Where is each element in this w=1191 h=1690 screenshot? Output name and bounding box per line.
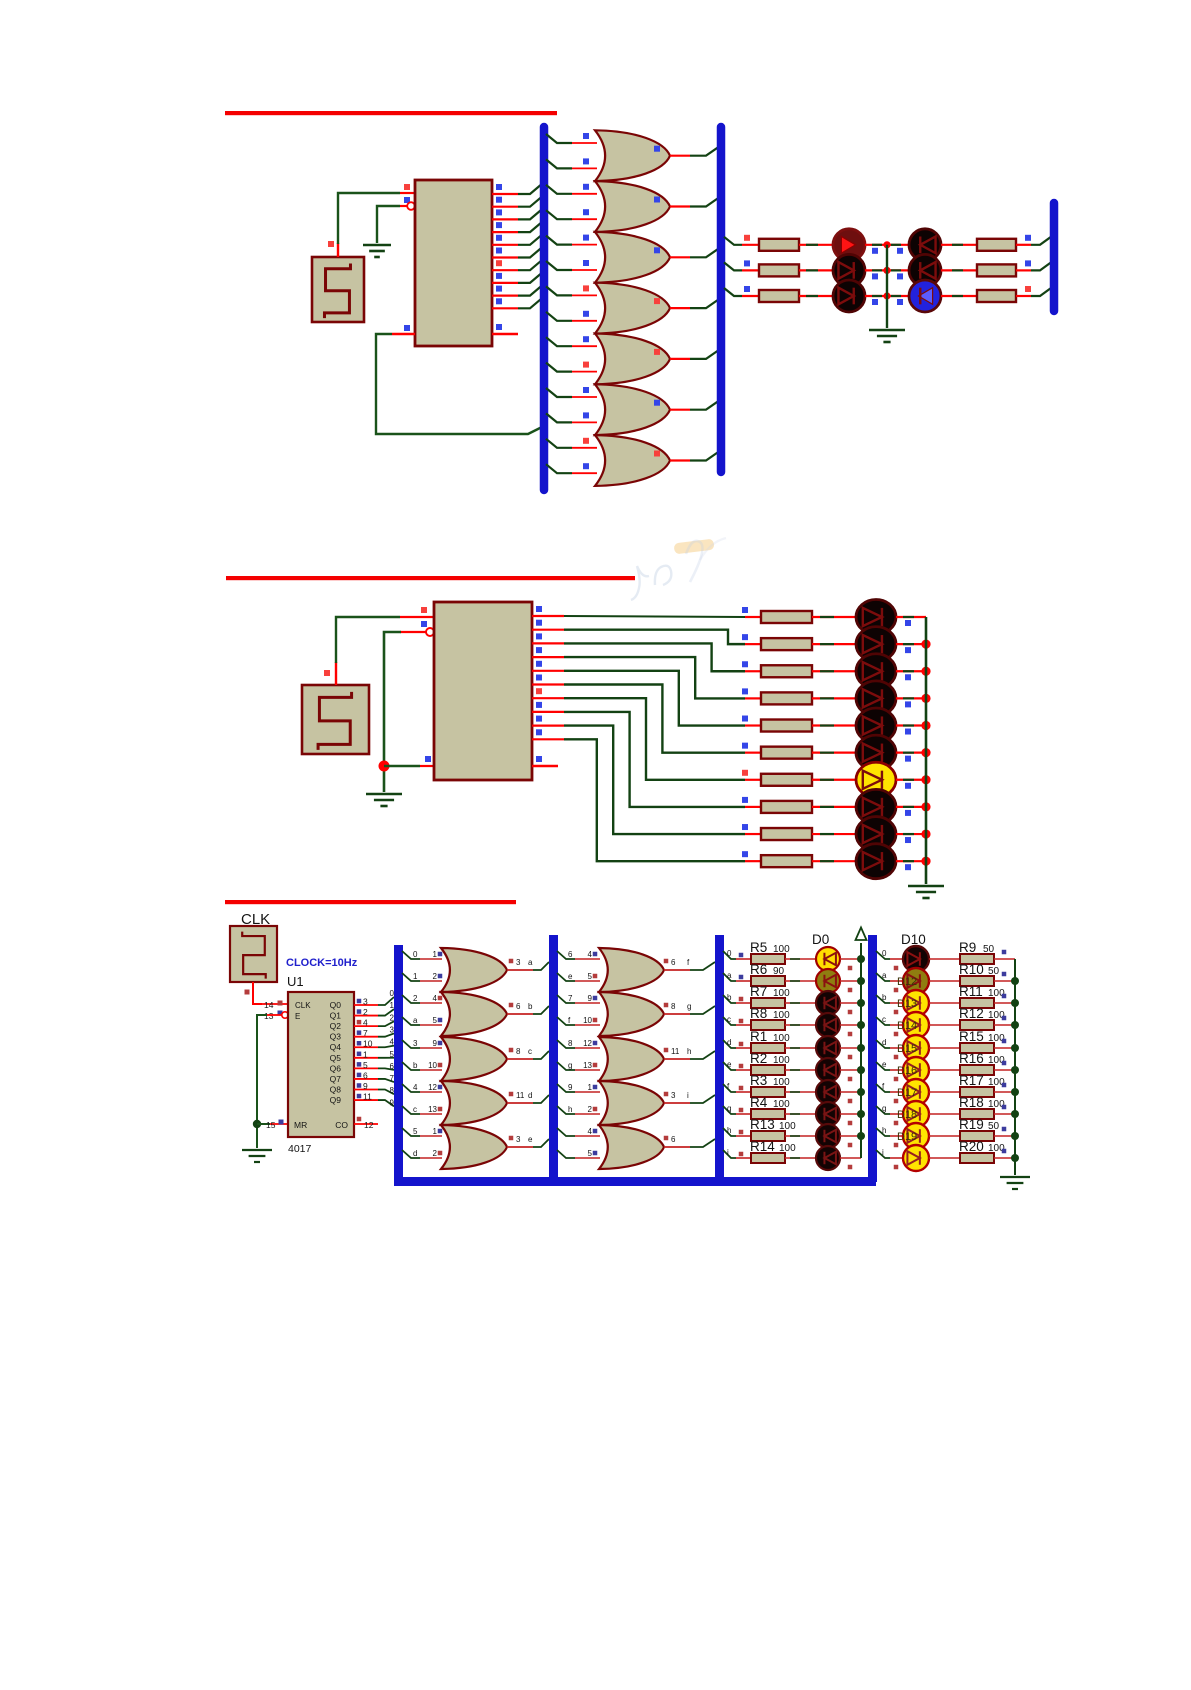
wire pin 9 to left bus bbox=[518, 285, 543, 296]
svg-text:5: 5 bbox=[588, 1149, 593, 1158]
svg-text:5: 5 bbox=[363, 1060, 368, 1070]
wire resistor to LED row 2 bbox=[799, 269, 834, 271]
resistor R3 fig3 bbox=[751, 1087, 785, 1097]
net marker after LED row 2 fig2 bbox=[905, 647, 911, 653]
wire bus to OR gate c input 2 fig3 col1 bbox=[402, 1062, 420, 1070]
LED D9 fig3 (off) bbox=[816, 1146, 840, 1170]
svg-text:R5: R5 bbox=[750, 940, 767, 955]
net marker D10 row c bbox=[894, 1032, 899, 1037]
svg-text:4: 4 bbox=[413, 1083, 418, 1092]
svg-text:i: i bbox=[727, 1148, 729, 1157]
svg-text:Q9: Q9 bbox=[330, 1095, 342, 1105]
wire LED D19 to resistor R20 bbox=[929, 1157, 960, 1159]
pin 2 of U1 fig1 right side bbox=[492, 206, 518, 208]
pin 4 of U1 fig2 bbox=[532, 656, 564, 658]
svg-text:3: 3 bbox=[363, 997, 368, 1007]
junction dot ground rail row 2 fig3 bbox=[1011, 999, 1019, 1007]
svg-text:100: 100 bbox=[773, 1077, 790, 1088]
LED D12 fig3 (lit) bbox=[903, 990, 929, 1016]
junction dot row 3 fig2 bbox=[921, 667, 930, 676]
svg-text:100: 100 bbox=[773, 988, 790, 999]
wire bus to OR gate e input 1 fig3 col1 bbox=[402, 1128, 420, 1136]
bus fig3 LED section D10 bbox=[868, 935, 877, 1182]
resistor R2 fig3 bbox=[751, 1065, 785, 1075]
wire LED D10 to resistor R9 bbox=[929, 958, 960, 960]
net marker gate col2 g2 output bbox=[664, 1003, 669, 1008]
wire bus2 to OR gate col2 g2 input 1 bbox=[557, 995, 575, 1003]
wire LED D1 to anode rail bbox=[840, 980, 861, 982]
wire bus to OR gate e input 2 fig3 col1 bbox=[402, 1150, 420, 1158]
resistor R10 fig2 bbox=[761, 855, 812, 867]
svg-text:50: 50 bbox=[988, 966, 1000, 977]
OR gate U3 fig1 bbox=[595, 181, 670, 232]
resistor R7 fig3 bbox=[751, 998, 785, 1008]
svg-text:12: 12 bbox=[583, 1039, 592, 1048]
resistor R10 fig3 bbox=[960, 976, 994, 986]
junction dot ground rail row 4 fig3 bbox=[1011, 1044, 1019, 1052]
junction dot ground rail row 1 fig3 bbox=[1011, 977, 1019, 985]
wire bus2 to OR gate col2 g1 input 2 bbox=[557, 973, 575, 981]
wire to resistor row 4 fig2 bbox=[745, 697, 761, 699]
LED D2 fig1 (off) bbox=[833, 254, 865, 286]
wire pin 7 to left bus bbox=[518, 259, 543, 270]
junction dot ground rail row 3 fig3 bbox=[1011, 1021, 1019, 1029]
wire LED to center junction row 2 bbox=[865, 269, 887, 271]
svg-text:13: 13 bbox=[428, 1105, 437, 1114]
wire LED D16 to resistor R17 bbox=[929, 1091, 960, 1093]
net marker row 5 fig2 bbox=[742, 716, 748, 722]
wire to resistor row 1 fig2 bbox=[745, 616, 761, 618]
center ground wire fig1 bbox=[886, 245, 888, 328]
OR gate c fig3 col1 bbox=[441, 1037, 507, 1081]
LED D4 fig1 (off) bbox=[909, 229, 941, 261]
svg-text:3: 3 bbox=[390, 1025, 395, 1034]
wire bus3 to resistor R8 row c bbox=[723, 1017, 736, 1025]
net marker gate U7 input 1 bbox=[583, 387, 589, 393]
clock pin edge triangle fig3 bbox=[288, 1000, 295, 1008]
wire LED to center junction row 3 bbox=[865, 295, 887, 297]
svg-text:R13: R13 bbox=[750, 1117, 775, 1132]
wire bus4 to LED row a D10 col bbox=[876, 973, 890, 981]
wire OR gate U4 output to right bus bbox=[670, 256, 690, 258]
net marker after resistor R12 bbox=[1002, 1016, 1007, 1021]
net marker D10 row i bbox=[894, 1165, 899, 1170]
LED D7 fig3 (off) bbox=[816, 1102, 840, 1126]
svg-text:c: c bbox=[727, 1015, 731, 1024]
net marker gate b output bbox=[509, 1003, 514, 1008]
svg-text:4017: 4017 bbox=[288, 1143, 312, 1155]
wire resistor to LED row 1 bbox=[799, 244, 834, 246]
wire left bus to OR gate U8 input 2 fig1 bbox=[546, 464, 572, 473]
ground center fig1 bbox=[869, 329, 905, 332]
pin 1 of U1 fig1 right side bbox=[492, 193, 518, 195]
resistor R14 fig3 bbox=[751, 1153, 785, 1163]
bottom bus fig3 bbox=[394, 1177, 876, 1186]
svg-text:CLOCK=10Hz: CLOCK=10Hz bbox=[286, 957, 358, 969]
right bus fig1 bbox=[717, 127, 726, 472]
far right bus fig1 bbox=[1050, 203, 1059, 311]
ground fig3 left bbox=[242, 1149, 272, 1151]
svg-text:13: 13 bbox=[583, 1061, 592, 1070]
wire OR gate col2 g3 output to bus3 bbox=[664, 1058, 690, 1060]
svg-text:2: 2 bbox=[433, 972, 438, 981]
pin 11 of U1 fig2 (stub) bbox=[532, 765, 558, 767]
wire OR gate U7 output to right bus bbox=[670, 409, 690, 411]
wire LED D7 to anode rail bbox=[840, 1113, 861, 1115]
node marker bottom-left pin bbox=[404, 325, 410, 331]
wire resistor R18 to ground rail bbox=[994, 1113, 1015, 1115]
net marker row 7 fig2 bbox=[742, 770, 748, 776]
net marker after resistor R10 bbox=[1002, 972, 1007, 977]
wire IC bottom-left to left bus bbox=[376, 334, 544, 434]
svg-text:12: 12 bbox=[364, 1120, 374, 1130]
node marker CLK pin fig2 bbox=[421, 607, 427, 613]
inverted pin circle E fig3 bbox=[282, 1012, 288, 1018]
wire Q9 to input bus fig3 bbox=[378, 1100, 394, 1106]
wire OR gate col2 g2 output to bus3 bbox=[664, 1013, 690, 1015]
node marker E pin bbox=[404, 197, 410, 203]
svg-text:h: h bbox=[687, 1047, 691, 1056]
wire resistor R4 to LED D7 bbox=[785, 1113, 817, 1115]
LED D14 fig3 (lit) bbox=[903, 1035, 929, 1061]
resistor R4 fig2 bbox=[761, 692, 812, 704]
svg-text:2: 2 bbox=[433, 1149, 438, 1158]
svg-text:9: 9 bbox=[363, 1081, 368, 1091]
wire OR gate d output to bus2 bbox=[507, 1102, 533, 1104]
wire bus4 to LED row d D10 col bbox=[876, 1040, 890, 1048]
ground fig2 right bbox=[908, 885, 944, 888]
net marker gate U5 input 2 bbox=[583, 311, 589, 317]
wire left bus to OR gate U7 input 2 fig1 bbox=[546, 413, 572, 422]
inverted pin circle E fig1 bbox=[407, 202, 415, 210]
svg-text:g: g bbox=[882, 1104, 886, 1113]
net marker after resistor R18 bbox=[1002, 1105, 1007, 1110]
wire junction to MR pin bbox=[257, 1123, 270, 1125]
pin 5 of U1 fig1 right side bbox=[492, 244, 518, 246]
wire bus2 to OR gate col2 g3 input 1 bbox=[557, 1040, 575, 1048]
wire Q1 to input bus fig3 bbox=[378, 1009, 394, 1015]
net marker row 3 left bbox=[744, 286, 750, 292]
svg-text:6: 6 bbox=[516, 1002, 521, 1011]
svg-text:14: 14 bbox=[264, 1000, 274, 1010]
svg-text:0: 0 bbox=[390, 989, 395, 998]
pin 4 of U1 fig1 right side bbox=[492, 231, 518, 233]
svg-text:1: 1 bbox=[413, 972, 418, 981]
wire pin 2 to left bus bbox=[518, 196, 543, 207]
svg-text:b: b bbox=[882, 993, 887, 1002]
svg-text:g: g bbox=[568, 1061, 572, 1070]
wire resistor to LED row 7 fig2 bbox=[812, 779, 857, 781]
svg-text:8: 8 bbox=[568, 1039, 573, 1048]
wire pin 8 to LED row 8 fig2 bbox=[564, 712, 745, 807]
wire E pin to ground net fig3 bbox=[266, 1014, 282, 1016]
net marker LED D4 bbox=[848, 1055, 853, 1060]
wire LED to common cathode rail row 3 fig2 bbox=[896, 670, 926, 672]
IC U1 fig1 (decoder) bbox=[415, 180, 492, 346]
svg-text:E: E bbox=[295, 1012, 300, 1021]
junction dot D0 rail row 7 bbox=[857, 1110, 865, 1118]
net marker gate d output bbox=[509, 1092, 514, 1097]
net marker gate U5 output bbox=[654, 298, 660, 304]
wire clock to U1 pin 14 bbox=[253, 982, 262, 1004]
ground rail fig3 right bbox=[1014, 959, 1016, 1175]
wire LED D6 to anode rail bbox=[840, 1091, 861, 1093]
pin 11 of U1 fig1 (unconnected stub) bbox=[492, 333, 518, 335]
net marker gate col2 g3 output bbox=[664, 1048, 669, 1053]
net marker gate U3 input 1 bbox=[583, 184, 589, 190]
resistor R15 fig3 bbox=[960, 1043, 994, 1053]
junction dot D0 rail row 5 bbox=[857, 1066, 865, 1074]
wire bus2 to OR gate col2 g4 input 2 bbox=[557, 1106, 575, 1114]
net marker after resistor R20 bbox=[1002, 1149, 1007, 1154]
net marker after LED row 9 fig2 bbox=[905, 837, 911, 843]
svg-text:R15: R15 bbox=[959, 1029, 984, 1044]
wire bus4 to LED row b D10 col bbox=[876, 995, 890, 1003]
wire resistor R16 to ground rail bbox=[994, 1069, 1015, 1071]
svg-text:100: 100 bbox=[779, 1143, 796, 1154]
IC U1 4017 fig3 bbox=[288, 992, 354, 1137]
wire resistor to LED row 8 fig2 bbox=[812, 806, 857, 808]
net marker row 10 fig2 bbox=[742, 851, 748, 857]
svg-text:MR: MR bbox=[294, 1120, 307, 1130]
pin 11 of U1 (Q9) bbox=[354, 1099, 378, 1101]
wire LED to common cathode rail row 4 fig2 bbox=[896, 697, 926, 699]
svg-text:Q4: Q4 bbox=[330, 1042, 342, 1052]
wire bus to OR gate d input 2 fig3 col1 bbox=[402, 1106, 420, 1114]
OR gate b fig3 col1 bbox=[441, 992, 507, 1036]
clock pin edge triangle fig2 bbox=[434, 612, 443, 622]
net marker gate U6 input 1 bbox=[583, 336, 589, 342]
LED D9 fig2 (off) bbox=[856, 817, 896, 852]
wire left bus to OR gate U4 input 1 fig1 bbox=[546, 236, 572, 245]
wire resistor to LED row 10 fig2 bbox=[812, 860, 857, 862]
net marker gate U4 output bbox=[654, 247, 660, 253]
wire OR gate U2 output to right bus bbox=[670, 155, 690, 157]
node marker clock stub bbox=[328, 241, 334, 247]
svg-text:0: 0 bbox=[413, 950, 418, 959]
anode rail fig3 D0 column bbox=[860, 943, 862, 1158]
pin 7 of U1 (Q3) bbox=[354, 1036, 378, 1038]
resistor R11 fig3 bbox=[960, 998, 994, 1008]
wire to resistor row 3 fig2 bbox=[745, 670, 761, 672]
svg-text:8: 8 bbox=[516, 1047, 521, 1056]
net marker gate c output bbox=[509, 1048, 514, 1053]
OR gate col2 g3 fig3 bbox=[599, 1037, 664, 1081]
net marker LED D1 bbox=[848, 988, 853, 993]
net marker gate U4 input 2 bbox=[583, 260, 589, 266]
node marker clock stub fig3 bbox=[245, 990, 250, 995]
pin 8 of U1 fig1 right side bbox=[492, 282, 518, 284]
net marker row 1 left bbox=[744, 235, 750, 241]
svg-text:D10: D10 bbox=[901, 932, 926, 947]
net marker gate U7 input 2 bbox=[583, 412, 589, 418]
net marker row 4 fig2 bbox=[742, 688, 748, 694]
wire junction to IC bottom-left pin fig2 bbox=[384, 765, 420, 767]
LED D10 fig3 (off) bbox=[903, 946, 929, 972]
svg-text:c: c bbox=[528, 1047, 532, 1056]
svg-text:1: 1 bbox=[390, 1001, 395, 1010]
common cathode rail fig2 bbox=[925, 617, 928, 884]
svg-text:7: 7 bbox=[363, 1028, 368, 1038]
svg-text:10: 10 bbox=[583, 1016, 592, 1025]
net marker gate U3 input 2 bbox=[583, 209, 589, 215]
junction dot ground rail row 9 fig3 bbox=[1011, 1154, 1019, 1162]
svg-text:9: 9 bbox=[433, 1039, 438, 1048]
svg-text:D18: D18 bbox=[897, 1109, 917, 1121]
wire resistor R9 to ground rail bbox=[994, 958, 1015, 960]
svg-text:e: e bbox=[727, 1060, 732, 1069]
junction dot row 2 fig2 bbox=[921, 640, 930, 649]
pin 7 of U1 fig2 bbox=[532, 697, 564, 699]
OR gate col2 g1 fig3 bbox=[599, 948, 664, 992]
net marker row 6 fig2 bbox=[742, 743, 748, 749]
wire LED to common cathode rail row 10 fig2 bbox=[896, 860, 926, 862]
svg-text:Q8: Q8 bbox=[330, 1084, 342, 1094]
pin 1 of U1 fig2 bbox=[532, 615, 564, 617]
pin 3 of U1 fig1 right side bbox=[492, 218, 518, 220]
svg-text:d: d bbox=[413, 1149, 417, 1158]
resistor R17 fig3 bbox=[960, 1087, 994, 1097]
svg-text:5: 5 bbox=[588, 972, 593, 981]
wire bus4 to LED row i D10 col bbox=[876, 1150, 890, 1158]
wire bus3 to resistor R7 row b bbox=[723, 995, 736, 1003]
svg-text:c: c bbox=[882, 1015, 886, 1024]
resistor R13 fig3 bbox=[751, 1131, 785, 1141]
wire left bus to OR gate U5 input 1 fig1 bbox=[546, 286, 572, 295]
net marker after LED row 10 fig2 bbox=[905, 864, 911, 870]
svg-text:1: 1 bbox=[588, 1083, 593, 1092]
wire right bus to resistor row 3 fig1 bbox=[724, 288, 742, 296]
net marker row 1 right bbox=[1025, 235, 1031, 241]
bus fig3 LED section D0 bbox=[715, 935, 724, 1182]
resistor R6 fig2 bbox=[761, 747, 812, 759]
resistor R1 fig3 bbox=[751, 1043, 785, 1053]
wire LED D4 to anode rail bbox=[840, 1047, 861, 1049]
net marker gate e output bbox=[509, 1136, 514, 1141]
net marker after resistor R9 bbox=[1002, 950, 1007, 955]
resistor R19 fig3 bbox=[960, 1131, 994, 1141]
LED D10 fig2 (off) bbox=[856, 844, 896, 879]
wire LED D14 to resistor R15 bbox=[929, 1047, 960, 1049]
wire resistor to LED row 3 fig2 bbox=[812, 670, 857, 672]
svg-text:CO: CO bbox=[335, 1120, 348, 1130]
net marker after resistor R11 bbox=[1002, 994, 1007, 999]
wire LED D18 to resistor R19 bbox=[929, 1135, 960, 1137]
figure 2 title underline bbox=[226, 576, 635, 580]
svg-text:f: f bbox=[568, 1016, 571, 1025]
wire LED to common cathode rail row 8 fig2 bbox=[896, 806, 926, 808]
wire to resistor row 5 fig2 bbox=[745, 724, 761, 726]
svg-text:1: 1 bbox=[363, 1049, 368, 1059]
svg-text:Q7: Q7 bbox=[330, 1074, 342, 1084]
junction dot ground rail row 7 fig3 bbox=[1011, 1110, 1019, 1118]
inverted pin circle E fig2 bbox=[426, 628, 434, 636]
wire bus to OR gate a input 1 fig3 col1 bbox=[402, 951, 420, 959]
svg-text:g: g bbox=[687, 1002, 691, 1011]
net marker LED D6 bbox=[848, 1099, 853, 1104]
resistor R6 fig3 bbox=[751, 976, 785, 986]
wire LED D17 to resistor R18 bbox=[929, 1113, 960, 1115]
wire bus4 to LED row h D10 col bbox=[876, 1128, 890, 1136]
net marker D10 row b bbox=[894, 1010, 899, 1015]
svg-text:R4: R4 bbox=[750, 1095, 768, 1110]
svg-text:R9: R9 bbox=[959, 940, 976, 955]
wire left bus to OR gate U7 input 1 fig1 bbox=[546, 388, 572, 397]
wire bus to OR gate c input 1 fig3 col1 bbox=[402, 1040, 420, 1048]
wire left bus to OR gate U3 input 1 fig1 bbox=[546, 185, 572, 194]
net marker gate U5 input 1 bbox=[583, 285, 589, 291]
resistor R5 fig3 bbox=[751, 954, 785, 964]
wire right bus to resistor row 1 fig1 bbox=[724, 237, 742, 245]
wire LED D12 to resistor R11 bbox=[929, 1002, 960, 1004]
net marker LED D9 bbox=[848, 1165, 853, 1170]
junction dot ground rail row 8 fig3 bbox=[1011, 1132, 1019, 1140]
resistor R1 fig2 bbox=[761, 611, 812, 623]
wire left bus to OR gate U2 input 1 fig1 bbox=[546, 134, 572, 143]
net marker LED D3 bbox=[848, 1032, 853, 1037]
junction dot row 6 fig2 bbox=[921, 748, 930, 757]
wire left bus to OR gate U5 input 2 fig1 bbox=[546, 312, 572, 321]
pin 6 of U1 fig2 bbox=[532, 683, 564, 685]
wire pin 3 to left bus bbox=[518, 208, 543, 219]
svg-text:R3: R3 bbox=[750, 1073, 767, 1088]
wire resistor R8 to LED D3 bbox=[785, 1024, 817, 1026]
svg-text:50: 50 bbox=[983, 944, 995, 955]
net marker after LED row 3 fig2 bbox=[905, 674, 911, 680]
net marker row 8 fig2 bbox=[742, 797, 748, 803]
resistor R3 fig2 bbox=[761, 665, 812, 677]
svg-text:0: 0 bbox=[882, 949, 887, 958]
wire pin 6 to left bus bbox=[518, 247, 543, 258]
svg-text:d: d bbox=[727, 1038, 731, 1047]
wire bus to OR gate a input 2 fig3 col1 bbox=[402, 973, 420, 981]
junction dot D0 rail row 4 bbox=[857, 1044, 865, 1052]
net marker after resistor R15 bbox=[1002, 1039, 1007, 1044]
wire pin 4 to left bus bbox=[518, 221, 543, 232]
svg-text:90: 90 bbox=[773, 966, 785, 977]
LED D16 fig3 (lit) bbox=[903, 1079, 929, 1105]
wire Q3 to input bus fig3 bbox=[378, 1033, 394, 1036]
svg-text:R1: R1 bbox=[750, 1029, 767, 1044]
svg-text:5: 5 bbox=[413, 1127, 418, 1136]
OR gate U4 fig1 bbox=[595, 232, 670, 283]
LED D7 fig2 (lit yellow) bbox=[856, 762, 896, 797]
figure 1 title underline bbox=[225, 111, 557, 115]
net marker after LED row 8 fig2 bbox=[905, 810, 911, 816]
svg-text:6: 6 bbox=[568, 950, 573, 959]
resistor R1 fig1 bbox=[759, 239, 799, 251]
net markers at junction row 1 bbox=[872, 248, 878, 254]
wire junction to right LED row 3 bbox=[887, 295, 909, 297]
junction dot row 8 fig2 bbox=[921, 802, 930, 811]
wire Q8 to input bus fig3 bbox=[378, 1089, 394, 1094]
LED D3 fig2 (off) bbox=[856, 654, 896, 689]
svg-text:6: 6 bbox=[390, 1062, 395, 1071]
wire to resistor row 7 fig2 bbox=[745, 779, 761, 781]
svg-text:5: 5 bbox=[390, 1050, 395, 1059]
wire bus2 to OR gate col2 g2 input 2 bbox=[557, 1017, 575, 1025]
net marker gate U2 output bbox=[654, 146, 660, 152]
wire bus to OR gate b input 2 fig3 col1 bbox=[402, 1017, 420, 1025]
wire OR gate e output to bus2 bbox=[507, 1146, 533, 1148]
wire resistor R20 to ground rail bbox=[994, 1157, 1015, 1159]
OR gate col2 g2 fig3 bbox=[599, 992, 664, 1036]
wire LED to center junction row 1 bbox=[865, 244, 887, 246]
net marker row 9 fig2 bbox=[742, 824, 748, 830]
resistor R8 fig2 bbox=[761, 801, 812, 813]
figure 3 title underline bbox=[225, 900, 516, 904]
wire pin 1 to left bus bbox=[518, 183, 543, 194]
